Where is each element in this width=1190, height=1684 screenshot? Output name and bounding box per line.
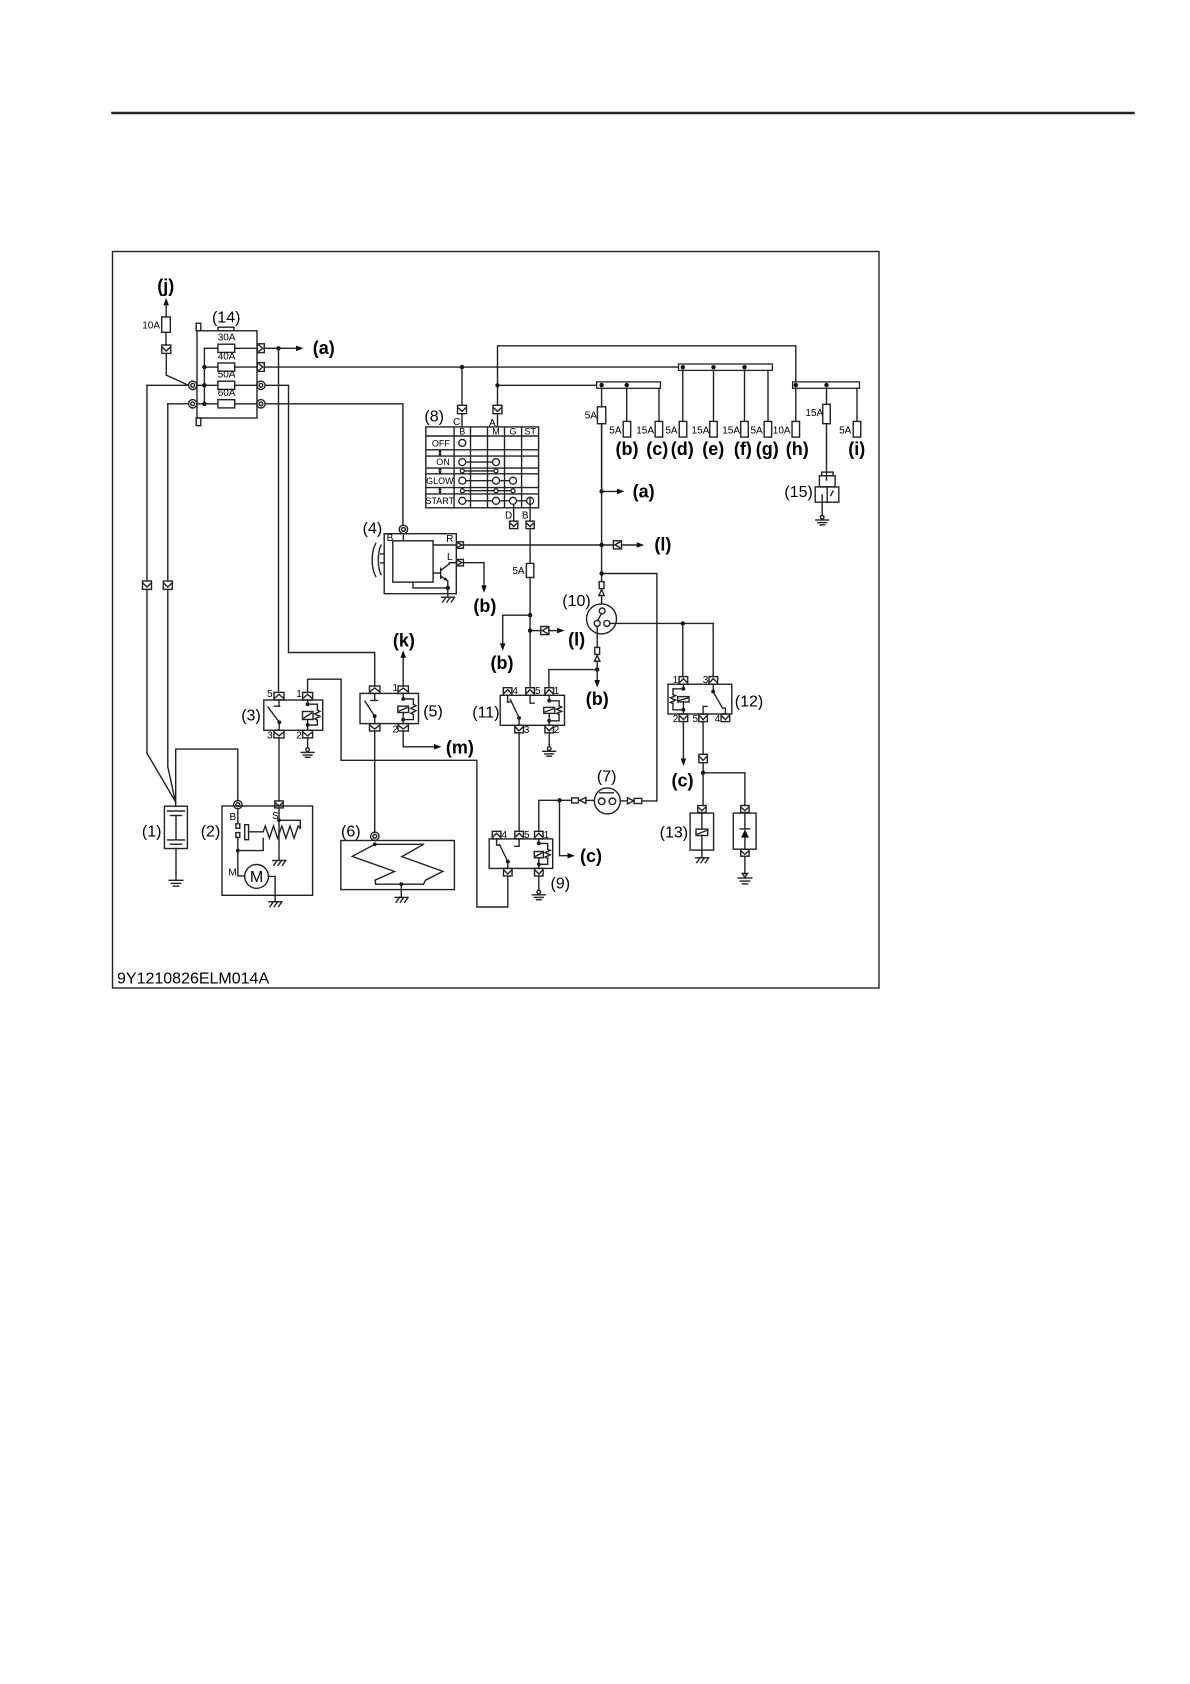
svg-text:15A: 15A <box>805 408 823 419</box>
(9) pin 1 <box>535 831 544 839</box>
svg-text:5: 5 <box>693 714 699 725</box>
svg-text:5A: 5A <box>609 425 622 436</box>
connector on (j) line <box>162 345 171 353</box>
wire (11) pin2 to ground <box>548 733 550 747</box>
(9) pin bottom-left <box>504 868 513 876</box>
relay (5) body <box>360 693 419 723</box>
svg-text:(d): (d) <box>671 439 694 459</box>
(9) fixed contact from pin5 <box>515 839 519 846</box>
node H1 crossing <box>599 543 603 547</box>
(12) pin 2 <box>679 714 688 722</box>
svg-text:(c): (c) <box>646 439 668 459</box>
fuse 5A (g) <box>767 370 769 421</box>
svg-text:B: B <box>229 812 236 823</box>
svg-text:4: 4 <box>715 714 721 725</box>
fuse 15A mid bus3 <box>826 388 828 404</box>
svg-text:1: 1 <box>296 689 302 700</box>
component (15) body <box>822 472 834 476</box>
svg-text:30A: 30A <box>218 333 236 344</box>
wire (3) pin2 to ground <box>307 738 309 748</box>
svg-text:(5): (5) <box>423 704 443 721</box>
svg-text:(b): (b) <box>491 653 514 673</box>
arrow to (a) lower <box>602 490 618 492</box>
connector battery riser B <box>163 581 172 589</box>
(11) coil <box>548 695 550 701</box>
(4) buzzer symbol <box>372 543 376 576</box>
terminal ring 60A left <box>189 400 197 408</box>
svg-text:(b): (b) <box>473 596 496 616</box>
svg-text:D: D <box>505 510 512 521</box>
ground (6) <box>395 896 407 898</box>
svg-text:(15): (15) <box>784 484 812 501</box>
connector (l) upper <box>613 541 621 549</box>
(12) pin 1 <box>679 677 688 685</box>
(4) output transistor <box>433 572 440 574</box>
fuse 5A on ST line <box>526 563 533 577</box>
wire (10) bottom lead <box>596 626 598 647</box>
node (7)/(c) junction <box>557 798 561 802</box>
wire 40A feed to accessory bus <box>264 366 678 368</box>
connector diode top <box>741 806 749 813</box>
wire motor to ground <box>269 876 276 901</box>
svg-text:1: 1 <box>673 675 679 686</box>
(11) pin 3 <box>515 725 524 733</box>
connector 40A output <box>257 363 264 372</box>
arrow (b) below (10) <box>596 670 598 681</box>
svg-text:(7): (7) <box>597 769 617 786</box>
fusebox mounting ear top-left <box>196 323 201 331</box>
wire R line to (l) with node <box>463 544 613 546</box>
top horizontal rule <box>112 112 1134 114</box>
(12) switch contact <box>712 684 714 691</box>
svg-text:1: 1 <box>554 686 560 697</box>
ground (3) <box>306 748 310 752</box>
(12) fixed contact pin5 <box>703 706 707 714</box>
arrow to (j) <box>163 298 169 306</box>
wire key switch C drop <box>461 367 463 405</box>
connector (l) mid <box>541 627 549 635</box>
svg-text:B: B <box>522 510 529 521</box>
svg-text:15A: 15A <box>692 425 710 436</box>
wire L to (b) arrow <box>463 563 484 586</box>
svg-text:(a): (a) <box>313 338 335 358</box>
arrow to (a) <box>279 347 297 349</box>
svg-text:15A: 15A <box>636 425 654 436</box>
svg-text:1: 1 <box>544 830 550 841</box>
node (13)/diode split <box>701 771 705 775</box>
node 30A/(a) junction <box>276 346 280 350</box>
node bus1 feed branch <box>495 383 499 387</box>
svg-text:(10): (10) <box>562 593 590 610</box>
svg-text:5A: 5A <box>585 411 598 422</box>
wire battery positive to starter B riser <box>176 749 238 806</box>
wire 60A left to battery riser <box>168 403 189 405</box>
svg-text:GLOW: GLOW <box>426 476 454 486</box>
terminal ring (2) B <box>234 800 242 808</box>
table column lines <box>453 427 455 508</box>
svg-text:3: 3 <box>267 731 273 742</box>
relay (12) body <box>668 684 732 714</box>
connector A <box>493 405 502 413</box>
svg-text:(m): (m) <box>446 737 474 757</box>
svg-text:(g): (g) <box>756 439 779 459</box>
(7) right lead <box>620 800 627 802</box>
terminal ring 50A left <box>189 381 197 389</box>
node (12) pin1 branch <box>681 621 685 625</box>
svg-text:(j): (j) <box>157 276 174 296</box>
wire (5) pin2 to (m) arrow <box>403 731 434 747</box>
svg-text:ST: ST <box>524 426 536 436</box>
ground (11) <box>547 747 551 751</box>
svg-text:R: R <box>446 534 453 545</box>
fuse 10A (h) <box>795 388 797 421</box>
wire (13) to ground <box>701 850 703 857</box>
relay (3) body <box>264 700 323 730</box>
svg-text:(13): (13) <box>660 825 688 842</box>
wire (3) pin3 to starter S terminal <box>278 738 280 801</box>
(13) coil <box>701 813 703 830</box>
wire (10) line to (12) pin1 <box>682 623 684 676</box>
diode symbol <box>744 813 746 830</box>
(9) pin 5 <box>515 831 524 839</box>
(9) pin 4 <box>492 831 501 839</box>
START row contacts B-M-G-ST <box>462 500 530 502</box>
battery plates <box>168 810 185 812</box>
(12) coil <box>682 684 684 689</box>
svg-text:(h): (h) <box>786 439 809 459</box>
battery (1) body <box>164 806 187 848</box>
svg-text:2: 2 <box>296 731 302 742</box>
terminal ring 50A right <box>257 381 265 389</box>
(11) pin 5 <box>526 688 535 696</box>
GLOW row contacts B-M-G <box>462 480 513 482</box>
svg-text:(b): (b) <box>616 439 639 459</box>
node (10) low junction <box>595 667 599 671</box>
fuse 5A (b) <box>626 388 628 421</box>
plug connector left of (7) <box>572 798 579 803</box>
arrow (k) from (5) pin1 <box>402 657 404 686</box>
svg-text:5: 5 <box>535 686 541 697</box>
svg-text:5: 5 <box>267 689 273 700</box>
wire 15A to (15) <box>826 424 828 480</box>
(3) coil <box>307 700 309 704</box>
(7) internals <box>600 792 614 794</box>
wire 50A line to (5) switch <box>289 653 375 687</box>
wire battery riser B <box>167 404 169 581</box>
svg-text:(b): (b) <box>586 689 609 709</box>
svg-text:(6): (6) <box>341 823 361 840</box>
wire ST line down to relay (11) pin5 <box>529 578 531 688</box>
wire battery riser A <box>146 385 148 581</box>
fuse 5A (d) <box>682 370 684 421</box>
wire 30A to (a) junction <box>264 347 278 349</box>
svg-text:(i): (i) <box>848 439 865 459</box>
(12) pin 5 <box>699 714 708 722</box>
ground motor <box>269 901 281 903</box>
fusebox top tab <box>218 327 234 331</box>
wire (6) to ground <box>400 884 402 897</box>
wire branch to (11) pin1 <box>549 670 597 688</box>
diagram border frame <box>113 252 880 989</box>
wire bus1 feed <box>498 384 597 386</box>
svg-text:4: 4 <box>502 830 508 841</box>
(11) pin 4 <box>503 688 512 696</box>
wire diode to ground <box>744 856 746 874</box>
wire 60A output to controller (4) <box>265 404 403 525</box>
(5) coil <box>402 693 404 699</box>
(2) hold coil to ground <box>278 820 280 859</box>
svg-text:(4): (4) <box>363 521 383 538</box>
(2) motor <box>245 865 269 889</box>
wire battery riser B lower + diagonal to battery <box>167 589 169 766</box>
svg-text:10A: 10A <box>142 320 160 331</box>
OFF row contact circle B <box>459 439 466 446</box>
plug connector below (10) <box>595 647 600 654</box>
glow plugs (6) body <box>341 841 455 890</box>
svg-text:5: 5 <box>524 830 530 841</box>
fusebox mounting ear bottom-left <box>196 418 201 426</box>
(9) pin bottom-right <box>535 868 544 876</box>
svg-text:(14): (14) <box>212 310 240 327</box>
transition row 1 contacts <box>462 470 496 472</box>
svg-text:15A: 15A <box>722 425 740 436</box>
wire 50A output right then down <box>265 385 288 652</box>
fuse 10A (j line) <box>162 317 171 332</box>
wire inner box to R <box>433 544 457 546</box>
wire (9) pin bottom-right to ground <box>538 876 540 890</box>
terminal ring (4) B <box>399 525 407 533</box>
wire (4) to ground <box>447 588 449 597</box>
connector (13) top <box>698 806 706 813</box>
(12) pin 4 <box>721 714 730 722</box>
(5) switch contact <box>374 693 376 700</box>
wire 50A left to battery riser <box>147 384 189 386</box>
svg-text:4: 4 <box>512 686 518 697</box>
svg-text:(a): (a) <box>633 482 655 502</box>
wire (9) pin1 riser to (7) <box>539 800 572 831</box>
(3) switch contact <box>278 700 280 706</box>
fusebox internal bus wire <box>203 348 205 404</box>
svg-text:(f): (f) <box>734 439 752 459</box>
node 40A branch to key switch C <box>460 365 464 369</box>
relay (11) body <box>500 695 564 725</box>
(11) pin 2 <box>545 725 554 733</box>
component (4) body <box>384 534 456 594</box>
svg-text:9Y1210826ELM014A: 9Y1210826ELM014A <box>117 971 269 988</box>
wire (j) line down + diagonal to 50A terminal <box>165 353 167 375</box>
node (a) lower junction <box>599 489 603 493</box>
svg-text:3: 3 <box>524 725 530 736</box>
transition arrows in label column <box>439 451 441 455</box>
(2) S internal wiring <box>278 808 280 820</box>
bus bar 3 <box>793 382 860 388</box>
svg-text:(8): (8) <box>424 409 444 426</box>
svg-text:50A: 50A <box>218 370 236 381</box>
(11) pin 1 <box>545 688 554 696</box>
wire D terminal below table <box>513 504 515 521</box>
svg-text:(1): (1) <box>142 824 162 841</box>
terminal ring 60A right <box>257 400 265 408</box>
wire branch right to (7) riser <box>602 574 657 801</box>
svg-text:(12): (12) <box>735 694 763 711</box>
svg-text:M: M <box>492 426 500 436</box>
svg-text:M: M <box>228 868 236 879</box>
connector 30A output <box>257 344 264 353</box>
svg-text:10A: 10A <box>773 425 791 436</box>
connector B (ST) <box>526 521 534 529</box>
svg-text:5A: 5A <box>750 425 763 436</box>
(4) inner module box <box>393 541 433 582</box>
svg-text:B: B <box>459 426 465 436</box>
wire battery to ground <box>175 849 177 880</box>
plug connector above (10) <box>599 582 604 589</box>
connector (7) body circle <box>594 788 620 814</box>
(11) fixed contact from pin5 <box>530 695 534 703</box>
wire R-line vertical (a)-(l) main: fuse a down to plug <box>601 424 603 582</box>
wire (15) to ground <box>821 495 823 515</box>
wire line A: key switch feed to bus 3 <box>498 346 796 406</box>
connector battery riser A <box>143 581 152 589</box>
connector C <box>458 405 467 413</box>
connector D <box>510 521 518 529</box>
relay (9) body <box>489 839 553 869</box>
svg-text:(l): (l) <box>568 630 585 650</box>
ground (4) <box>442 596 454 598</box>
wire to diode <box>703 773 745 806</box>
bus bar 2 <box>679 364 773 370</box>
(10) terminals <box>599 608 605 614</box>
svg-text:(9): (9) <box>551 876 571 893</box>
wire 5A to (a) node <box>601 424 603 492</box>
fusebox (14) body <box>197 331 257 418</box>
diode ground arrow mark <box>742 873 747 877</box>
svg-text:60A: 60A <box>218 388 236 399</box>
wire (12) pin2 to (c) arrow <box>682 722 684 759</box>
wire (11) pin3 down to (9) pin5 <box>518 733 520 831</box>
svg-text:(11): (11) <box>472 705 499 722</box>
bus bar 1 <box>597 382 661 388</box>
starter (2) body <box>222 806 313 895</box>
ground (2) internal <box>273 860 285 862</box>
node branch to (b) arrow <box>528 613 532 617</box>
diode body box <box>733 813 756 849</box>
ground (9) <box>537 890 541 894</box>
svg-text:(c): (c) <box>580 846 602 866</box>
fuse 15A (c) <box>658 388 660 421</box>
(9) coil <box>538 839 540 844</box>
svg-text:START: START <box>425 496 454 506</box>
(6) heater elements <box>373 842 377 846</box>
wire battery riser A lower + diagonal to battery <box>146 589 148 753</box>
wire (10) output right to (12) <box>610 622 713 624</box>
svg-text:(3): (3) <box>241 708 261 725</box>
wire B(ST) terminal below table <box>529 497 531 521</box>
wire down to (13) <box>702 773 704 806</box>
(11) switch contact <box>508 695 510 702</box>
wire branch to (b) arrow <box>503 615 530 644</box>
wire (10) line to (12) pin3 <box>712 623 714 676</box>
connector diode bottom <box>741 849 749 856</box>
(9) switch contact <box>497 839 499 845</box>
svg-text:2: 2 <box>673 714 679 725</box>
fuse 5A (i) <box>856 388 858 421</box>
ground battery <box>169 879 183 881</box>
connector (2) S <box>275 801 283 808</box>
(4) internal wire to ground <box>413 582 448 588</box>
transition row 2 contacts <box>462 490 513 492</box>
(15) internal contact mark <box>831 491 833 496</box>
svg-text:40A: 40A <box>218 351 236 362</box>
terminal ring (6) <box>371 832 379 840</box>
fuse 5A feed (a) <box>601 388 603 407</box>
svg-text:OFF: OFF <box>432 438 450 448</box>
fuse 15A (e) <box>713 370 715 421</box>
ground diode <box>738 877 752 879</box>
connector on (12) pin5 line <box>699 754 707 762</box>
(12) pin 3 <box>709 677 718 685</box>
svg-text:(c): (c) <box>672 771 694 791</box>
fuse 15A (f) <box>744 370 746 421</box>
ground (13) <box>696 857 708 859</box>
svg-text:5A: 5A <box>839 425 852 436</box>
svg-text:(l): (l) <box>654 535 671 555</box>
svg-text:G: G <box>509 426 516 436</box>
svg-text:(k): (k) <box>393 630 415 650</box>
solenoid (10) body circle <box>587 604 617 634</box>
(5) pin top-left <box>370 686 380 693</box>
svg-text:3: 3 <box>703 675 709 686</box>
wire branch to (l) <box>530 630 541 632</box>
ON row contacts B-M <box>462 461 496 463</box>
(5) pin bottom-left <box>370 724 380 731</box>
wire (3) pin1 to relay (9) path <box>308 679 508 907</box>
wire (12) pin5 down <box>702 722 704 755</box>
node branch to (l) connector <box>528 628 532 632</box>
svg-text:5A: 5A <box>665 425 678 436</box>
plug connector right of (7) <box>634 798 642 803</box>
svg-text:L: L <box>447 552 453 563</box>
(2) pull-in coils <box>249 826 301 838</box>
svg-text:(2): (2) <box>201 824 221 841</box>
svg-text:2: 2 <box>554 725 560 736</box>
wire (a) junction down to (3) pin5 <box>278 348 280 692</box>
wire ST/B down to fuse <box>529 529 531 564</box>
svg-text:ON: ON <box>436 457 450 467</box>
key switch (8) table frame <box>426 427 539 508</box>
wire (5) to glow plugs (6) <box>374 731 376 833</box>
(2) main contacts <box>237 809 239 824</box>
svg-text:M: M <box>250 869 263 886</box>
node branch to x657 riser <box>599 571 603 575</box>
svg-text:5A: 5A <box>512 566 525 577</box>
wire (c) arrow right of (9) <box>560 800 569 855</box>
(13) body <box>690 813 714 850</box>
svg-text:(e): (e) <box>702 439 724 459</box>
ground (15) <box>820 515 824 519</box>
table row lines <box>426 435 539 437</box>
